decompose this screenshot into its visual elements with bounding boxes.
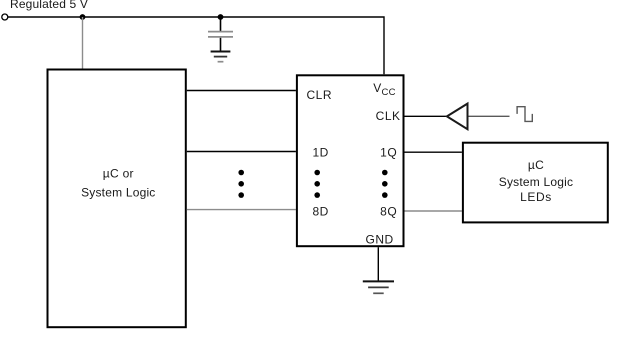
buffer triangle (clock driver) [447, 104, 468, 130]
svg-text:1D: 1D [313, 145, 329, 159]
junction dot (supply to uC) [80, 14, 86, 20]
wire CLK to buffer [405, 115, 447, 117]
svg-text:µC: µC [528, 158, 544, 172]
ellipsis dots inside IC left [314, 170, 320, 198]
ellipsis dots inside IC right [382, 170, 388, 198]
wire supply drop to uC (gray) [82, 17, 84, 70]
ground (IC) [363, 281, 394, 293]
svg-text:LEDs: LEDs [520, 190, 552, 204]
junction dot (capacitor tap) [218, 14, 224, 20]
wire CLR [187, 90, 296, 92]
svg-text:8Q: 8Q [380, 204, 397, 218]
wire top rail to VCC [8, 17, 384, 74]
uC System Logic LEDs box [463, 143, 608, 223]
svg-text:GND: GND [366, 233, 394, 247]
svg-text:1Q: 1Q [380, 145, 397, 159]
wire 1Q to LED box [405, 151, 462, 153]
uC or System Logic box [48, 70, 186, 328]
ground (capacitor) [211, 52, 231, 62]
wire 1D [187, 151, 296, 153]
wire buffer to pulse [469, 115, 510, 117]
svg-text:8D: 8D [313, 204, 329, 218]
svg-text:System Logic: System Logic [81, 186, 155, 200]
pulse (clock waveform symbol) [517, 107, 532, 122]
wire 8D (gray) [187, 209, 296, 211]
svg-text:µC or: µC or [103, 166, 134, 180]
ellipsis dots between uC and register [238, 170, 244, 198]
svg-text:Regulated 5 V: Regulated 5 V [10, 0, 88, 11]
register IC box [297, 75, 404, 246]
terminal (input circle) [2, 14, 8, 20]
svg-text:CLK: CLK [376, 109, 401, 123]
wire 8Q to LED box (gray) [405, 210, 462, 212]
capacitor C1 [208, 17, 233, 51]
wire GND stub [377, 247, 379, 281]
svg-text:CLR: CLR [307, 88, 333, 102]
svg-text:System Logic: System Logic [499, 175, 573, 189]
